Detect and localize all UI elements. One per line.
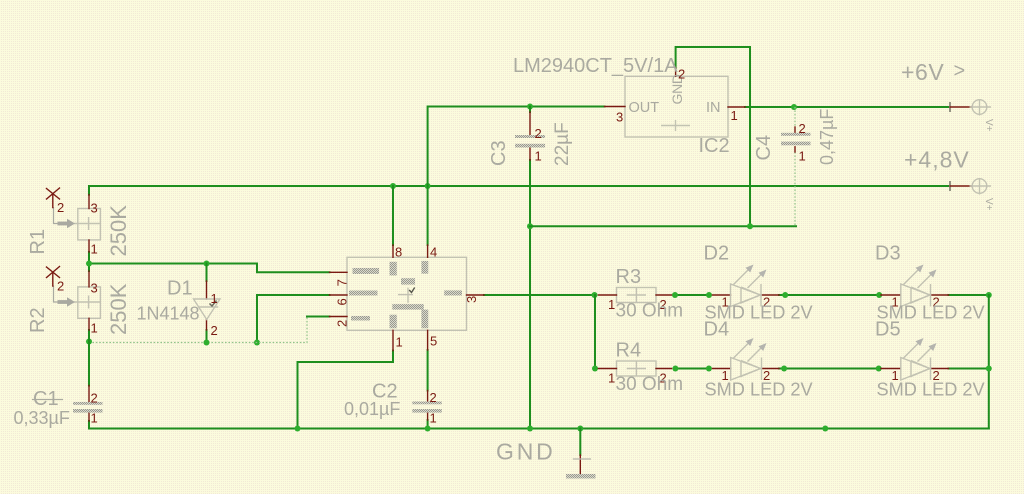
node GND rail mystery junction — [822, 426, 828, 432]
node A junction D1 top — [204, 261, 210, 267]
voltage regulator IC2 LM2940 — [513, 55, 745, 157]
node R3 left junction — [592, 292, 598, 298]
svg-text:30 Ohm: 30 Ohm — [616, 301, 684, 322]
svg-text:V+: V+ — [983, 119, 994, 132]
node thin-net junction at R2 — [86, 339, 92, 345]
LED D3 — [875, 243, 986, 323]
svg-text:1: 1 — [91, 411, 98, 426]
resistor R3 — [598, 266, 683, 322]
svg-text:250K: 250K — [106, 283, 131, 335]
node R4 right junction — [672, 366, 678, 372]
svg-text:1N4148: 1N4148 — [137, 304, 200, 324]
node D4 right junction — [781, 366, 787, 372]
svg-text:LM2940CT_5V/1A: LM2940CT_5V/1A — [513, 55, 678, 77]
svg-text:D1: D1 — [167, 278, 193, 300]
node GND rail step junction — [295, 426, 301, 432]
wire D2 to D3 — [779, 294, 879, 296]
svg-text:2: 2 — [535, 126, 542, 141]
node R4 left junction — [592, 366, 598, 372]
svg-text:1: 1 — [211, 291, 218, 306]
node GND rail symbol junction — [577, 426, 583, 432]
wire R2 bottom to C1 — [88, 330, 90, 386]
svg-text:R4: R4 — [616, 340, 642, 362]
svg-text:1: 1 — [535, 149, 542, 164]
svg-text:R3: R3 — [616, 266, 642, 288]
wire D5 to right vertical — [949, 368, 989, 370]
wire IC1 pin2 net stub — [307, 316, 330, 318]
svg-text:6: 6 — [334, 298, 349, 305]
wire C4 thin column — [794, 107, 796, 226]
wire right vertical to GND rail — [988, 295, 990, 429]
wire D1 bottom segment — [206, 330, 208, 343]
svg-text:5: 5 — [430, 334, 437, 349]
wire net A (R1 bottom to D1 and IC1 pin7) — [89, 252, 330, 272]
ground — [496, 439, 596, 479]
node D2 right junction — [782, 292, 788, 298]
wire C1 bottom to GND rail — [88, 421, 90, 429]
svg-text:0,33µF: 0,33µF — [14, 408, 70, 428]
svg-text:0,47µF: 0,47µF — [817, 109, 837, 165]
node rail-pin4 junction — [425, 183, 431, 189]
node right vertical top junction — [986, 292, 992, 298]
svg-text:3: 3 — [616, 110, 623, 125]
wire C3 column down to GND rail — [529, 107, 531, 429]
svg-text:IN: IN — [706, 100, 721, 116]
node D3 left junction — [876, 292, 882, 298]
svg-text:1: 1 — [608, 297, 615, 312]
svg-text:4: 4 — [430, 245, 437, 260]
svg-text:1: 1 — [91, 242, 98, 257]
svg-text:22µF: 22µF — [552, 122, 573, 166]
svg-text:2: 2 — [57, 279, 64, 294]
svg-text:>: > — [954, 60, 966, 82]
LED D4 — [704, 319, 814, 400]
svg-text:V+: V+ — [983, 198, 994, 211]
svg-text:2: 2 — [334, 320, 349, 327]
node D4 left junction — [706, 366, 712, 372]
op-amp U1 (IC1 SMD footprint block) — [330, 245, 485, 351]
diode D1 — [137, 278, 221, 339]
wire GND bottom rail — [89, 428, 989, 430]
resistor R4 — [598, 340, 683, 396]
svg-text:2: 2 — [430, 390, 437, 405]
wire D3 to right vertical — [949, 294, 989, 296]
svg-text:3: 3 — [464, 296, 479, 303]
svg-text:D5: D5 — [875, 319, 901, 341]
svg-text:2: 2 — [799, 121, 806, 136]
wire thin net R2 wiper to pin2 — [89, 317, 307, 343]
supply pin +4,8V — [904, 147, 994, 211]
svg-text:1: 1 — [91, 321, 98, 336]
svg-text:D4: D4 — [704, 319, 730, 341]
wire R4 to D4 — [675, 368, 709, 370]
node GND rail C3 junction — [527, 426, 533, 432]
svg-text:GND: GND — [496, 439, 556, 465]
wire IC1 pin6 net — [257, 295, 330, 343]
svg-text:2: 2 — [211, 323, 218, 338]
svg-text:IC2: IC2 — [699, 135, 730, 157]
capacitor C1 — [14, 386, 103, 429]
wire IC1 pin3 to R3 — [484, 294, 595, 296]
svg-text:1: 1 — [799, 149, 806, 164]
wire IC2 GND pin loop — [676, 47, 750, 226]
svg-text:SMD LED 2V: SMD LED 2V — [877, 380, 986, 400]
capacitor C3 — [488, 112, 573, 166]
node GND sub-rail C3 junction — [527, 223, 533, 229]
node R3 right junction — [672, 292, 678, 298]
node GND rail C2 junction — [425, 426, 431, 432]
node OUT net C3 junction — [527, 104, 533, 110]
wire D4 to D5 — [779, 368, 879, 370]
wire IC1 pin5 to C2 — [427, 350, 429, 391]
svg-text:C4: C4 — [753, 135, 775, 161]
node A junction R1-R2 — [86, 261, 92, 267]
svg-text:OUT: OUT — [629, 100, 660, 116]
svg-text:8: 8 — [395, 245, 402, 260]
svg-text:3: 3 — [91, 201, 98, 216]
wire IC1 pin8 to rail — [392, 186, 394, 245]
svg-text:R1: R1 — [27, 229, 49, 255]
node thin-net junction at D1 — [204, 340, 210, 346]
node D2 left junction — [706, 292, 712, 298]
wire +4,8V rail — [89, 186, 948, 195]
svg-text:7: 7 — [334, 279, 349, 286]
svg-text:250K: 250K — [106, 205, 131, 257]
svg-text:R2: R2 — [27, 307, 49, 333]
LED D2 — [704, 243, 814, 323]
svg-text:2: 2 — [91, 391, 98, 406]
svg-text:1: 1 — [608, 371, 615, 386]
wire GND sub-rail — [530, 225, 796, 227]
svg-text:D3: D3 — [875, 243, 901, 265]
svg-text:C3: C3 — [488, 140, 510, 166]
node +6V C4 junction — [791, 104, 797, 110]
node pin6-net bottom junction — [254, 340, 260, 346]
node right vertical D5 junction — [986, 366, 992, 372]
wire R3-R4 left vertical — [594, 295, 596, 369]
svg-text:0,01µF: 0,01µF — [344, 399, 400, 419]
svg-text:3: 3 — [91, 281, 98, 296]
svg-text:30 Ohm: 30 Ohm — [616, 374, 684, 395]
supply pin +6V — [901, 59, 994, 132]
wire IC1 pin4 to rail and OUT net corner — [428, 107, 605, 246]
svg-text:+6V: +6V — [901, 59, 944, 85]
LED D5 — [875, 319, 986, 400]
wire IC1 pin1 step to GND rail — [298, 351, 394, 429]
potentiometer R1 — [27, 188, 131, 257]
svg-text:1: 1 — [731, 108, 738, 123]
capacitor C4 — [753, 109, 837, 165]
svg-text:+4,8V: +4,8V — [904, 147, 970, 173]
svg-text:2: 2 — [678, 67, 685, 82]
svg-text:1: 1 — [430, 411, 437, 426]
wire D1 top segment — [206, 264, 208, 282]
potentiometer R2 — [27, 267, 131, 336]
wire +6V net — [745, 106, 948, 108]
svg-text:SMD LED 2V: SMD LED 2V — [705, 380, 814, 400]
svg-text:1: 1 — [396, 335, 403, 350]
svg-text:D2: D2 — [704, 243, 730, 265]
svg-text:2: 2 — [57, 200, 64, 215]
wire R3 to D2 — [675, 294, 709, 296]
node GND sub-rail reg junction — [747, 223, 753, 229]
wire GND symbol stub — [579, 429, 581, 456]
wire C2 bottom to GND rail — [427, 420, 429, 429]
node D5 left junction — [876, 366, 882, 372]
node rail-pin8 junction — [390, 183, 396, 189]
capacitor C2 — [344, 381, 442, 426]
